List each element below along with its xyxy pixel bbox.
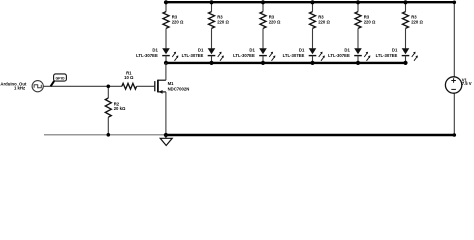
- svg-text:10 Ω: 10 Ω: [124, 75, 134, 80]
- svg-text:M1: M1: [168, 81, 175, 86]
- svg-text:7.5 V: 7.5 V: [462, 81, 472, 86]
- svg-text:1 kHz: 1 kHz: [14, 86, 25, 91]
- svg-text:20 kΩ: 20 kΩ: [114, 106, 126, 111]
- svg-text:NDC7002N: NDC7002N: [168, 87, 190, 92]
- svg-text:GPIO: GPIO: [56, 76, 65, 80]
